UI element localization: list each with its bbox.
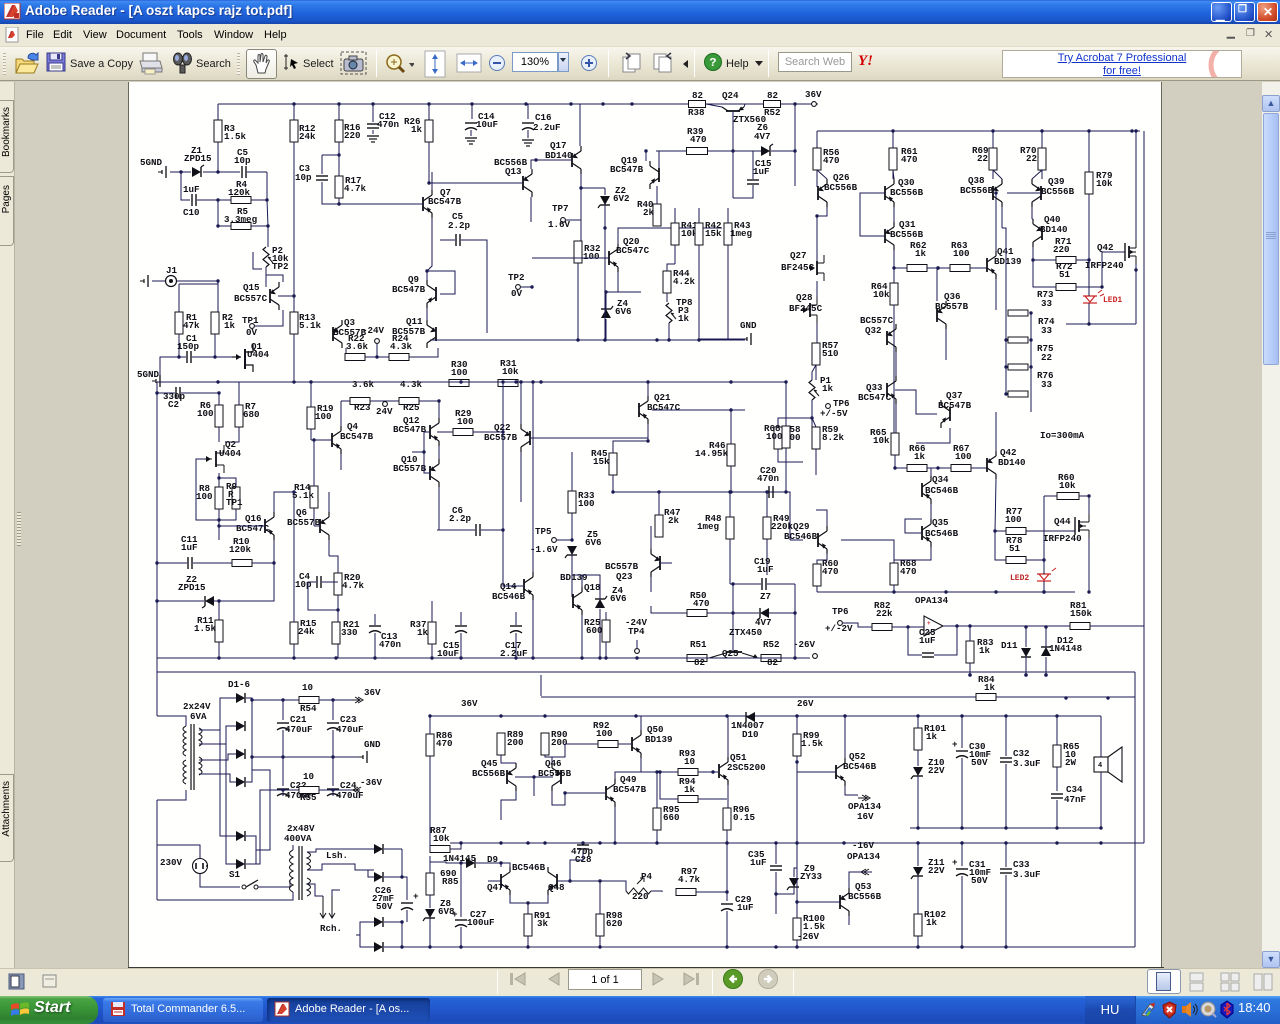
- wire: [402, 877, 407, 900]
- diode lower1: [374, 917, 383, 927]
- resistor R10: [232, 560, 252, 567]
- search icon: [171, 51, 195, 77]
- wire: [552, 744, 565, 757]
- page prev icon: [620, 51, 646, 77]
- transistor Q2: [215, 451, 217, 467]
- transistor Q42: [986, 458, 988, 472]
- junction: [1099, 841, 1102, 844]
- junction: [1031, 258, 1034, 261]
- junction: [499, 714, 502, 717]
- resistor R9: [232, 487, 240, 509]
- test point TP5: [552, 538, 557, 543]
- wire: [698, 798, 727, 800]
- capacitor C28: [577, 844, 589, 846]
- wire: [429, 918, 431, 947]
- resistor R52: [764, 101, 781, 108]
- junction: [459, 945, 462, 948]
- select tool: [283, 53, 301, 73]
- wire: [660, 562, 672, 564]
- transistor Q50: [631, 737, 633, 751]
- wire: [406, 910, 408, 922]
- junction: [1087, 258, 1090, 261]
- svg-text:U404: U404: [219, 448, 242, 459]
- svg-text:BC557B: BC557B: [484, 432, 518, 443]
- resistor R52: [761, 655, 781, 662]
- svg-text:BC557C: BC557C: [234, 293, 268, 304]
- svg-text:100: 100: [451, 367, 468, 378]
- wire: [307, 864, 374, 870]
- wire: [812, 418, 816, 427]
- wire: [605, 292, 607, 309]
- resistor R8: [215, 487, 223, 509]
- junction: [428, 945, 431, 948]
- junction: [795, 760, 798, 763]
- transistor Q22: [529, 431, 531, 445]
- wire: [815, 365, 817, 380]
- junction: [784, 490, 787, 493]
- resistor R25: [602, 620, 610, 642]
- junction: [634, 714, 637, 717]
- resistor R91: [524, 914, 532, 936]
- junction: [644, 149, 647, 152]
- capacitor C10: [191, 194, 193, 206]
- wire: [274, 492, 294, 512]
- wire: [218, 509, 220, 540]
- wire: [557, 880, 570, 882]
- junction: [1055, 714, 1058, 717]
- wire: [660, 772, 678, 799]
- wire: [157, 800, 200, 858]
- svg-text:510: 510: [822, 348, 839, 359]
- wire: [700, 338, 745, 340]
- zener Z2b: [205, 596, 214, 606]
- wire: [910, 827, 1101, 829]
- wire bus mid: [817, 591, 1075, 593]
- svg-text:470: 470: [823, 155, 840, 166]
- wire: [641, 758, 679, 772]
- wire: [917, 776, 919, 828]
- wire: [816, 281, 818, 297]
- wire: [431, 172, 433, 190]
- wire: [1025, 627, 1027, 647]
- junction: [425, 269, 428, 272]
- transistor Q15: [269, 289, 271, 303]
- resistor R6: [215, 405, 223, 427]
- svg-text:120k: 120k: [229, 544, 252, 555]
- svg-text:TP2: TP2: [508, 272, 525, 283]
- wire: [571, 513, 573, 540]
- wire: [775, 894, 777, 914]
- wire: [1043, 581, 1045, 592]
- svg-text:100: 100: [953, 248, 970, 259]
- wire: [726, 892, 728, 901]
- diode D8: [374, 872, 383, 882]
- svg-text:4V7: 4V7: [754, 131, 771, 142]
- capacitor C17: [510, 625, 522, 627]
- Rch arrows: [320, 896, 335, 918]
- zoom out button: [489, 55, 507, 73]
- nav first: [509, 972, 531, 986]
- wire: [527, 130, 529, 138]
- svg-text:3k: 3k: [537, 918, 549, 929]
- wire: [606, 272, 618, 292]
- svg-text:BC547C: BC547C: [858, 392, 892, 403]
- wire: [322, 581, 338, 583]
- wire: [431, 644, 433, 658]
- wire: [604, 228, 606, 340]
- resistor R38: [689, 101, 706, 108]
- junction: [217, 656, 220, 659]
- nav last: [681, 972, 703, 986]
- junction: [292, 490, 295, 493]
- svg-text:1uF: 1uF: [750, 857, 767, 868]
- wire: [995, 279, 997, 310]
- wire: [157, 392, 175, 394]
- capacitor C32: [1000, 757, 1012, 759]
- svg-text:1k: 1k: [678, 313, 690, 324]
- wire: [1088, 131, 1090, 172]
- junction: [400, 920, 403, 923]
- svg-text:Q42: Q42: [1097, 242, 1114, 253]
- wire: [332, 790, 334, 796]
- resistor R73: [1008, 310, 1028, 316]
- wire: [943, 625, 996, 627]
- svg-text:8.2k: 8.2k: [822, 432, 845, 443]
- svg-text:6V6: 6V6: [610, 593, 627, 604]
- wire: [199, 774, 236, 782]
- wire: [218, 393, 220, 405]
- diode D3: [236, 749, 245, 759]
- junction: [534, 158, 537, 161]
- diode D1: [236, 693, 245, 703]
- svg-text:BC556B: BC556B: [848, 891, 882, 902]
- wire: [365, 356, 377, 358]
- wire: [1088, 260, 1090, 296]
- wire: [401, 922, 403, 947]
- svg-text:120k: 120k: [228, 187, 251, 198]
- svg-text:470: 470: [690, 134, 707, 145]
- svg-text:470n: 470n: [379, 639, 401, 650]
- transistor Q48: [556, 874, 558, 888]
- wire: [893, 170, 894, 179]
- resistor R60 (470): [813, 564, 821, 586]
- svg-text:Q44: Q44: [1054, 516, 1071, 527]
- svg-text:TP1: TP1: [242, 315, 259, 326]
- test point TP6b: [838, 621, 843, 626]
- svg-text:Q28: Q28: [796, 292, 813, 303]
- junction: [281, 755, 284, 758]
- wire: [515, 633, 517, 658]
- junction: [337, 153, 340, 156]
- wire: [698, 245, 700, 340]
- wire Q21 base right: [652, 409, 745, 411]
- resistor R7: [235, 405, 243, 427]
- wire: [409, 348, 438, 357]
- svg-text:ZPD15: ZPD15: [184, 153, 212, 164]
- resistor R29: [453, 429, 473, 436]
- svg-text:470: 470: [900, 566, 917, 577]
- wire bus: [430, 339, 745, 341]
- svg-text:10p: 10p: [295, 172, 312, 183]
- wire: [1079, 495, 1089, 497]
- ground: [750, 333, 752, 345]
- transistor Q47: [500, 874, 502, 888]
- wire: [892, 170, 894, 179]
- svg-text:100: 100: [583, 251, 600, 262]
- wire: [785, 448, 787, 492]
- resistor R15: [290, 622, 298, 644]
- svg-text:22: 22: [1026, 153, 1037, 164]
- wire: [1043, 560, 1045, 574]
- wire: [282, 757, 284, 786]
- wire: [893, 207, 895, 222]
- resistor R49: [763, 517, 771, 539]
- svg-text:OPA134: OPA134: [915, 595, 949, 606]
- transistor Q14: [523, 579, 525, 593]
- svg-text:TP2: TP2: [272, 261, 289, 272]
- wire: [501, 791, 516, 820]
- wire: [374, 633, 376, 658]
- wire: [193, 562, 232, 564]
- toolbar: [0, 47, 1280, 81]
- menu bar: [0, 24, 1280, 47]
- junction: [526, 841, 529, 844]
- svg-text:1k: 1k: [926, 917, 938, 928]
- wire: [794, 868, 797, 877]
- junction: [250, 698, 253, 701]
- wire: [424, 432, 430, 473]
- wire: [727, 716, 729, 757]
- wire: [993, 170, 1002, 179]
- transistor Q21: [638, 403, 640, 417]
- junction: [470, 102, 473, 105]
- wire: [384, 921, 402, 923]
- wire: [995, 530, 1006, 532]
- resistor R69: [989, 148, 997, 170]
- svg-text:5GND: 5GND: [140, 157, 163, 168]
- capacitor C33: [1000, 868, 1012, 870]
- junction: [216, 279, 219, 282]
- resistor R26: [425, 120, 433, 142]
- svg-text:1k: 1k: [684, 784, 696, 795]
- wire: [614, 807, 616, 843]
- resistor R14: [310, 486, 318, 508]
- wire: [340, 454, 342, 470]
- wire: [893, 250, 895, 283]
- junction: [337, 102, 340, 105]
- wire: [384, 946, 402, 948]
- svg-text:100uF: 100uF: [467, 917, 495, 928]
- capacitor C6: [475, 524, 477, 536]
- wire: [650, 577, 652, 592]
- zener Z8: [425, 909, 435, 918]
- transistor Q12: [429, 425, 431, 439]
- junction: [793, 656, 796, 659]
- resistor R50: [687, 610, 707, 617]
- junction: [810, 416, 813, 419]
- svg-text:R52: R52: [764, 107, 781, 118]
- wire: [571, 452, 573, 491]
- capacitor C34: [1051, 793, 1063, 795]
- junction: [795, 714, 798, 717]
- svg-text:150k: 150k: [1070, 608, 1093, 619]
- svg-text:S1: S1: [229, 869, 241, 880]
- zener Z2: [600, 196, 610, 205]
- wire: [152, 280, 165, 282]
- wire: [917, 716, 919, 728]
- wire: [178, 334, 180, 357]
- capacitor C20: [768, 486, 770, 498]
- wire: [726, 830, 728, 843]
- transistor Q31: [884, 229, 886, 243]
- resistor R41: [671, 223, 679, 245]
- svg-text:Q15: Q15: [243, 282, 260, 293]
- junction: [843, 714, 846, 717]
- wire: [540, 675, 542, 696]
- terminal -24V: [375, 339, 380, 344]
- wire: [345, 348, 346, 357]
- transistor Q51: [718, 764, 720, 778]
- resistor R92: [598, 741, 618, 748]
- capacitor C15b: [455, 625, 467, 627]
- svg-text:R51: R51: [690, 639, 707, 650]
- svg-text:+: +: [413, 891, 419, 902]
- junction: [725, 714, 728, 717]
- wire: [971, 467, 987, 469]
- resistor R21: [332, 622, 340, 644]
- svg-text:100: 100: [197, 408, 214, 419]
- wire: [727, 245, 729, 340]
- wire: [157, 892, 293, 900]
- wire: [615, 772, 641, 779]
- junction: [272, 561, 275, 564]
- svg-text:10k: 10k: [1059, 480, 1076, 491]
- junction: [598, 841, 601, 844]
- help button: [704, 53, 722, 71]
- wire: [1025, 657, 1027, 675]
- resistor R100: [793, 918, 801, 940]
- wire: [530, 197, 532, 222]
- resistor R76: [1008, 391, 1028, 397]
- resistor R79: [1085, 172, 1093, 194]
- wire: [219, 509, 236, 520]
- wire: [376, 344, 378, 357]
- terminal 36V: [812, 102, 817, 107]
- svg-text:BC547C: BC547C: [236, 523, 270, 534]
- svg-text:+: +: [952, 857, 958, 868]
- wire: [246, 698, 252, 782]
- junction: [1134, 129, 1137, 132]
- svg-text:24V: 24V: [376, 406, 393, 417]
- junction: [774, 945, 777, 948]
- diode D9: [466, 858, 475, 868]
- resistor R51: [687, 655, 707, 662]
- resistor R17: [335, 176, 343, 198]
- wire: [778, 449, 803, 462]
- resistor R77: [1006, 528, 1026, 535]
- svg-text:50V: 50V: [376, 901, 393, 912]
- wire: [438, 487, 440, 530]
- wire: [157, 716, 186, 726]
- svg-text:BD139: BD139: [645, 734, 673, 745]
- wire: [732, 584, 734, 652]
- junction: [815, 214, 818, 217]
- diode D6: [236, 859, 245, 869]
- junction: [281, 788, 284, 791]
- transistor Q38: [992, 186, 994, 200]
- wire: [341, 400, 350, 402]
- resistor R48: [726, 517, 734, 539]
- junction: [611, 490, 614, 493]
- svg-text:16V: 16V: [857, 811, 874, 822]
- svg-text:22V: 22V: [928, 765, 945, 776]
- wire: [473, 431, 503, 433]
- junction: [331, 755, 334, 758]
- transistor Q23: [659, 556, 661, 570]
- wire: [895, 467, 907, 469]
- wire: [338, 142, 340, 176]
- junction: [1004, 392, 1007, 395]
- wire: [1056, 800, 1058, 828]
- wire: [936, 268, 938, 301]
- svg-text:200: 200: [507, 737, 524, 748]
- wire: [1135, 264, 1137, 285]
- wire: [1088, 496, 1090, 514]
- svg-text:33: 33: [1041, 298, 1053, 309]
- resistor R66: [907, 465, 927, 472]
- transistor Q9: [435, 287, 437, 301]
- junction: [428, 714, 431, 717]
- wire: [708, 150, 762, 152]
- wire: [310, 429, 312, 440]
- junction: [1044, 625, 1047, 628]
- svg-text:2.2uF: 2.2uF: [500, 648, 528, 659]
- svg-text:1k: 1k: [417, 627, 429, 638]
- wire: [618, 743, 631, 745]
- transistor Q39: [1040, 186, 1042, 200]
- junction: [604, 290, 607, 293]
- svg-text:6V8: 6V8: [438, 906, 455, 917]
- svg-text:Rch.: Rch.: [320, 923, 342, 934]
- status bar: [0, 968, 1280, 996]
- wire: [917, 843, 919, 866]
- fit page: [424, 50, 446, 78]
- resistor R63: [950, 265, 970, 272]
- svg-text:2.2p: 2.2p: [448, 220, 471, 231]
- resistor R57: [812, 343, 820, 365]
- junction: [991, 129, 994, 132]
- junction: [731, 582, 734, 585]
- svg-text:+/-5V: +/-5V: [820, 408, 848, 419]
- svg-text:100: 100: [578, 498, 595, 509]
- wire: [199, 726, 236, 744]
- wire: [766, 539, 768, 575]
- wire: [552, 791, 565, 805]
- svg-text:1k: 1k: [411, 124, 423, 135]
- svg-text:BF245C: BF245C: [789, 303, 823, 314]
- wire: [515, 776, 553, 778]
- wire: [570, 880, 600, 882]
- wire: [667, 264, 675, 271]
- wire: [460, 633, 462, 658]
- junction: [281, 698, 284, 701]
- resistor R24: [389, 354, 409, 361]
- junction: [728, 490, 731, 493]
- resistor R101: [914, 728, 922, 750]
- junction: [331, 698, 334, 701]
- svg-text:36V: 36V: [805, 89, 822, 100]
- junction: [1004, 826, 1007, 829]
